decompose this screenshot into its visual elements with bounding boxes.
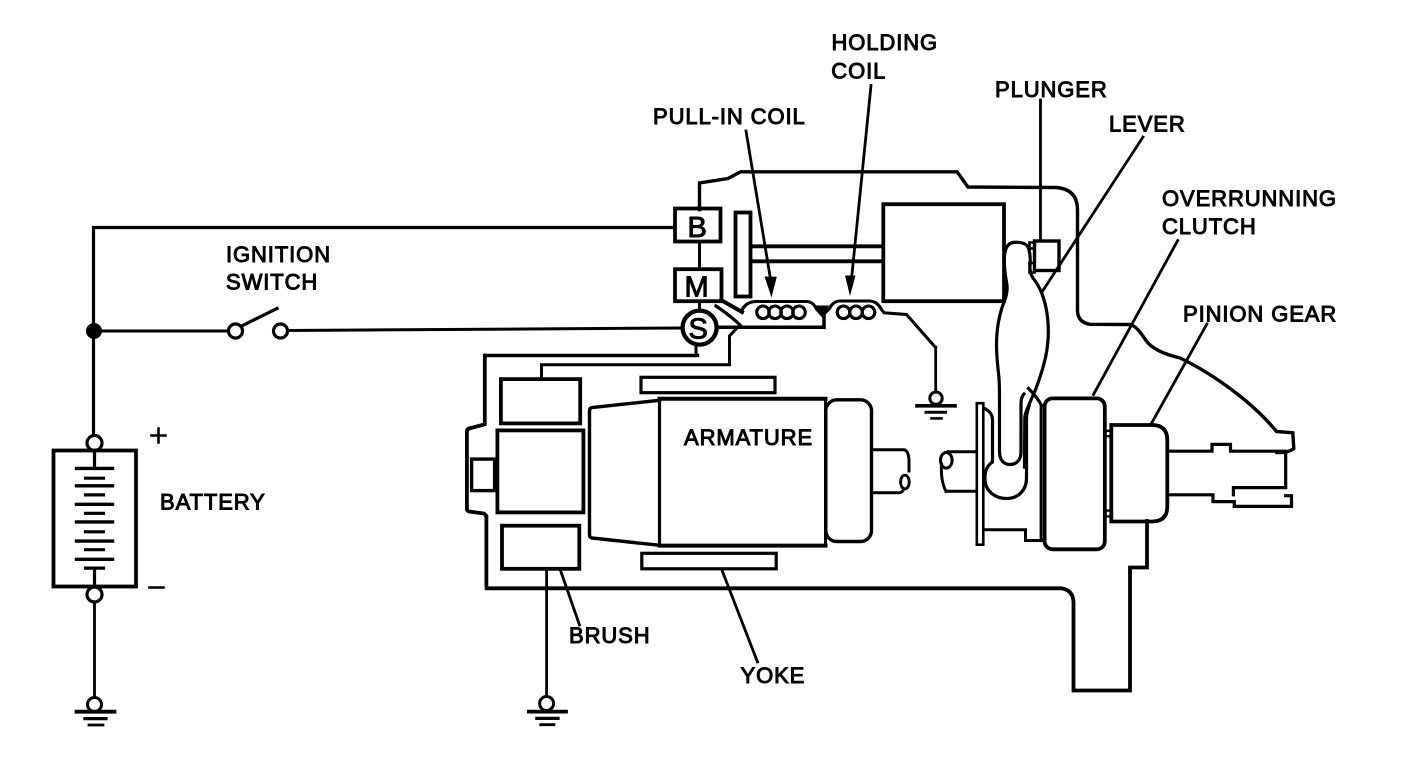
wire ignition switch to S terminal — [288, 328, 681, 331]
lever shift fork — [984, 242, 1049, 498]
wire S down to motor case — [695, 345, 698, 354]
terminal M — [675, 269, 722, 301]
svg-text:IGNITION: IGNITION — [226, 242, 331, 267]
leader yoke — [722, 569, 758, 662]
wire from battery + to B terminal — [94, 228, 674, 434]
svg-text:BATTERY: BATTERY — [160, 490, 266, 515]
brush upper — [501, 379, 580, 423]
svg-text:OVERRUNNING: OVERRUNNING — [1162, 186, 1337, 211]
leader brush — [560, 569, 580, 625]
svg-text:B: B — [688, 212, 707, 244]
wire brush to ground — [545, 569, 548, 697]
wire battery - to ground — [93, 602, 96, 697]
brush lower — [502, 526, 579, 569]
battery BATTERY — [54, 436, 137, 603]
wire holding coil to ground — [934, 347, 937, 392]
terminal S — [683, 311, 717, 345]
armature body — [660, 397, 826, 401]
battery plus sign — [152, 429, 166, 443]
node coil junction — [816, 306, 830, 318]
wire S branch to brush — [542, 329, 737, 379]
wire M to S — [698, 301, 701, 310]
solenoid housing outline — [700, 172, 1294, 453]
shaft lower link to clutch — [984, 530, 1045, 541]
node A battery/switch junction — [86, 323, 102, 339]
armature end cap — [826, 400, 872, 542]
wire junction to ignition switch — [94, 330, 228, 333]
leader overrunning clutch — [1094, 241, 1178, 395]
ground holding coil — [917, 392, 955, 418]
svg-text:M: M — [685, 272, 709, 304]
battery minus sign — [150, 586, 164, 589]
svg-text:SWITCH: SWITCH — [226, 270, 318, 295]
terminal B — [675, 209, 721, 242]
armature shaft — [872, 450, 910, 471]
wire M to coil — [721, 300, 742, 312]
ground brush — [529, 697, 566, 725]
svg-text:BRUSH: BRUSH — [569, 623, 651, 648]
shaft stub at clutch — [948, 450, 977, 453]
leader pinion gear — [1152, 324, 1207, 423]
solenoid core block — [883, 204, 1004, 301]
leader pull-in coil with arrowhead — [746, 131, 771, 279]
drive flange plate — [977, 403, 984, 545]
wire case top — [485, 354, 698, 357]
svg-text:COIL: COIL — [831, 58, 886, 83]
contact plunger T-bar — [736, 213, 751, 297]
svg-text:YOKE: YOKE — [741, 663, 806, 688]
ignition switch — [229, 309, 288, 339]
plunger end block — [1035, 241, 1060, 271]
pinion shaft splined end — [1168, 444, 1286, 494]
svg-text:CLUTCH: CLUTCH — [1162, 214, 1257, 239]
leader holding coil with arrowhead — [852, 86, 872, 280]
svg-text:PULL-IN COIL: PULL-IN COIL — [653, 104, 806, 129]
holding coil — [823, 301, 936, 348]
svg-text:ARMATURE: ARMATURE — [684, 425, 813, 450]
overrunning clutch body — [1045, 398, 1105, 549]
svg-text:PLUNGER: PLUNGER — [995, 77, 1108, 102]
pole shoe bottom (yoke) — [642, 553, 776, 569]
motor case yoke outline — [467, 356, 1147, 691]
svg-text:HOLDING: HOLDING — [832, 30, 939, 55]
ground battery — [77, 698, 115, 726]
pull-in coil — [741, 302, 823, 319]
leader plunger — [1039, 100, 1042, 239]
wire S to coil junction — [717, 315, 824, 328]
wire B to M — [698, 242, 701, 270]
pole shoe top — [641, 377, 775, 392]
brush holder small square — [472, 459, 495, 491]
pinion gear body — [1111, 425, 1167, 522]
armature commutator — [590, 400, 660, 545]
svg-text:LEVER: LEVER — [1109, 112, 1186, 137]
brush holder middle box — [497, 430, 583, 512]
svg-text:S: S — [689, 314, 708, 346]
leader lever — [1042, 137, 1143, 292]
clutch-pinion couplers — [1106, 431, 1112, 436]
